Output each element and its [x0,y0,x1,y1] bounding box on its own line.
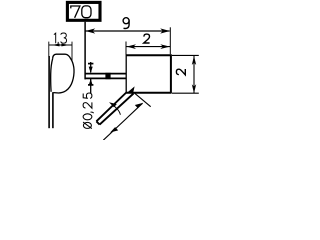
diagonal wire lower edge [100,94,134,125]
dimension 1,3 line [49,44,72,46]
extension line left for 2 (body left edge extended) [125,42,127,55]
left figure body outline [53,54,74,93]
diagonal dimension lower arrow [110,127,118,132]
right dimension 2 bottom arrow [192,84,196,93]
diagonal dimension upper arrow [135,103,143,108]
left figure wire left edge [48,56,50,128]
wire diameter dim lower arrow (pointing up) [90,79,92,94]
dimension 1,3 left extension line [48,42,50,57]
left figure body left edge [51,59,53,92]
wire diameter dim upper arrow (pointing down) [90,62,92,72]
right dimension 2 top arrow [192,56,196,65]
dimension 9 text [123,18,129,29]
right dimension 2 text (rotated) [176,69,185,75]
diameter 0,25 text (rotated) [83,93,94,129]
horizontal wire top edge [85,73,126,75]
black block on wire (leader arrow overlap) [105,73,110,79]
body bottom edge extension to right dim [172,92,199,94]
dimension 1,3 right extension line [71,42,73,61]
extension line right for 9 and 2 [169,27,171,54]
diagonal dimension line [103,103,142,140]
left figure wire right edge [52,92,54,128]
dimension 2 top text [144,34,150,43]
dimension 9 right arrow [160,28,170,33]
boxed label 70 [67,2,100,20]
dimension 9 line [85,30,169,32]
left figure: dimension 1,3 text [54,33,67,45]
diagonal wire end cap [96,121,99,124]
dimension 2 top line [126,46,170,48]
dimension 1,3 right arrow [61,44,69,47]
body top edge extension to right dim [172,54,199,56]
leader line from 70 box to wire tip [84,22,86,80]
body rectangle [126,54,171,93]
dimension 2 top left arrow [126,44,136,49]
dimension 2 top right arrow [160,44,170,49]
dimension 1,3 left arrow [51,44,59,47]
diagonal wire upper edge [96,92,126,121]
horizontal wire bottom edge [85,77,126,79]
dimension 9 left arrow [86,28,96,33]
extension line from body corner [135,93,151,107]
right dimension 2 line [193,56,195,93]
leader arrow on diagonal wire [109,102,117,107]
corner arrow wedge [128,86,135,94]
